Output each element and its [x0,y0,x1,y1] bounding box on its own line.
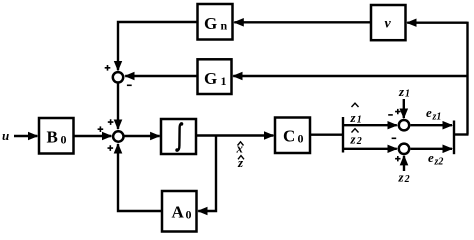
wire G1 output to S1 right [125,75,197,77]
wire bus to v input [407,22,467,24]
wire B0 to summer S2 [74,135,112,137]
svg-text:z: z [398,170,405,185]
block A0 [162,191,197,232]
wire feedback bus vertical [466,22,468,135]
wire Gn output to S1 top [118,22,198,70]
svg-text:e: e [428,150,434,165]
svg-text:G: G [204,14,217,33]
plus sign top input S2 [108,119,114,125]
svg-text:0: 0 [61,133,67,147]
wire z2 into S4 bottom [403,156,405,171]
plus sign top input S3 [395,109,400,114]
svg-text:e: e [426,105,432,120]
wire A0 to S2 bottom [118,144,162,211]
wire z1 into S3 top [403,99,405,118]
wire C0 output to split node [311,133,345,135]
svg-text:A: A [172,203,185,222]
label z2 hat [350,129,362,147]
block Gn [198,4,233,40]
wire v output to Gn input [234,21,371,23]
summing junction S3 [399,120,409,130]
plus sign bottom input S2 [108,145,114,151]
svg-text:C: C [283,127,295,146]
svg-text:z1: z1 [432,112,442,123]
plus sign left input S2 [98,126,104,132]
label z1 [398,84,410,100]
wire S2 to integrator [125,135,160,137]
wire bus to G1 input [233,75,466,77]
svg-text:G: G [204,69,217,88]
svg-text:1: 1 [357,115,362,126]
label e_z1 [426,105,441,123]
svg-text:0: 0 [298,132,304,146]
svg-text:2: 2 [404,174,410,185]
wire tap down to A0 [198,136,216,212]
node collector bar [453,121,455,155]
svg-text:1: 1 [405,89,410,100]
svg-text:u: u [2,128,9,143]
svg-text:z: z [350,132,357,147]
summing junction S2 [113,131,123,141]
block v [371,5,406,40]
label e_z2 [428,150,443,168]
minus sign left input S3 [388,114,393,116]
svg-text:z: z [237,155,244,170]
block integrator [161,119,196,154]
wire S1 to S2 vertical [117,84,119,130]
wire bus bottom connector [454,133,469,135]
summing junction S1 [113,72,123,82]
label x hat [236,141,244,156]
svg-text:1: 1 [221,74,227,88]
svg-text:v: v [385,17,392,32]
svg-text:0: 0 [186,208,192,222]
svg-text:n: n [221,19,228,33]
label z1 hat [350,103,362,125]
label z2 [398,170,410,186]
block G1 [198,59,232,94]
plus sign top input S1 [105,65,111,71]
label z hat [237,155,244,170]
svg-text:B: B [47,128,58,147]
wire split to S4 [343,148,397,150]
block B0 [39,118,74,154]
svg-text:z: z [398,84,405,99]
node split bar [342,117,344,153]
wire split to S3 [343,124,397,126]
wire S3 to collector e_z1 [411,124,453,126]
minus sign right input S1 [127,84,132,86]
block C0 [275,118,310,154]
minus sign left input S4 [392,137,397,139]
svg-text:2: 2 [356,136,362,147]
plus sign bottom input S4 [395,156,400,161]
svg-text:z2: z2 [434,157,444,168]
label u [2,128,9,143]
svg-text:z: z [350,110,357,125]
summing junction S4 [399,144,409,154]
wire u input arrow [14,135,37,137]
wire S4 to collector e_z2 [411,148,453,150]
svg-text:x: x [236,141,244,156]
wire integrator to C0 with tap node [197,134,274,136]
